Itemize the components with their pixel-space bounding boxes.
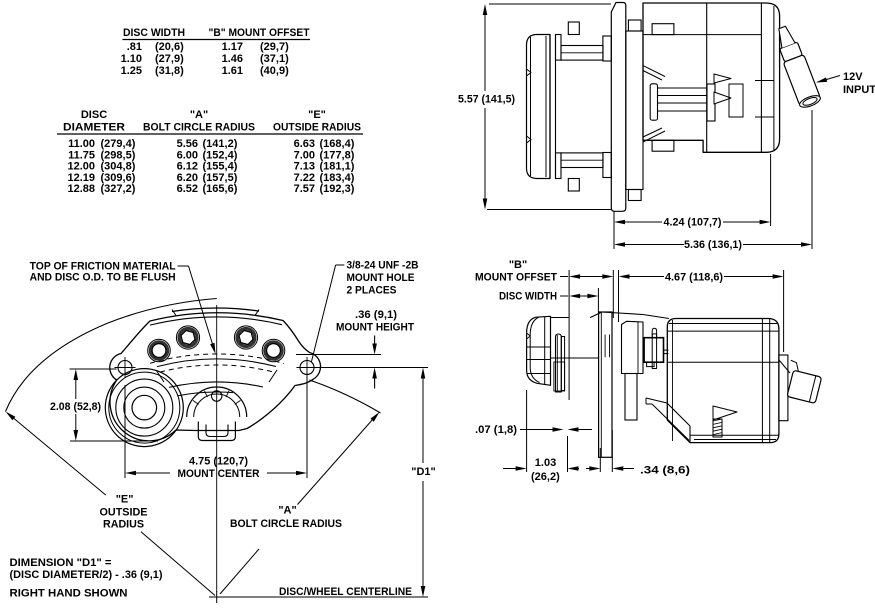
svg-text:(DISC DIAMETER/2) - .36 (9,1): (DISC DIAMETER/2) - .36 (9,1)	[10, 569, 163, 581]
svg-text:12V: 12V	[843, 71, 863, 83]
svg-text:4.67 (118,6): 4.67 (118,6)	[665, 272, 723, 284]
svg-text:(304,8): (304,8)	[101, 161, 136, 173]
svg-text:6.63: 6.63	[294, 138, 315, 150]
svg-text:4.24 (107,7): 4.24 (107,7)	[664, 217, 722, 229]
svg-text:(327,2): (327,2)	[101, 183, 136, 195]
svg-text:1.46: 1.46	[222, 53, 243, 65]
svg-text:"A": "A"	[190, 109, 208, 121]
svg-text:(31,8): (31,8)	[155, 65, 184, 77]
svg-text:BOLT CIRCLE RADIUS: BOLT CIRCLE RADIUS	[230, 518, 342, 530]
svg-text:INPUT: INPUT	[843, 84, 875, 96]
svg-text:BOLT CIRCLE RADIUS: BOLT CIRCLE RADIUS	[143, 122, 255, 134]
svg-text:6.12: 6.12	[177, 161, 198, 173]
svg-text:1.61: 1.61	[222, 65, 243, 77]
svg-text:RADIUS: RADIUS	[103, 519, 144, 531]
svg-text:7.13: 7.13	[294, 161, 315, 173]
svg-text:12.00: 12.00	[67, 161, 95, 173]
svg-text:"B" MOUNT OFFSET: "B" MOUNT OFFSET	[209, 27, 310, 39]
svg-text:(29,7): (29,7)	[260, 41, 289, 53]
svg-text:DISC WIDTH: DISC WIDTH	[499, 291, 557, 303]
svg-text:(37,1): (37,1)	[260, 53, 289, 65]
svg-text:3/8-24 UNF -2B: 3/8-24 UNF -2B	[347, 260, 419, 272]
svg-text:7.00: 7.00	[294, 149, 315, 161]
svg-text:12.19: 12.19	[67, 172, 95, 184]
svg-text:(279,4): (279,4)	[101, 138, 136, 150]
svg-text:(183,4): (183,4)	[320, 172, 355, 184]
svg-text:MOUNT CENTER: MOUNT CENTER	[178, 468, 260, 480]
svg-text:2 PLACES: 2 PLACES	[347, 285, 397, 297]
svg-text:"D1": "D1"	[411, 466, 436, 478]
svg-text:"E": "E"	[116, 494, 134, 506]
svg-text:5.36 (136,1): 5.36 (136,1)	[684, 239, 742, 251]
svg-text:DISC: DISC	[81, 109, 107, 121]
svg-text:.81: .81	[127, 41, 142, 53]
svg-text:AND DISC O.D. TO BE FLUSH: AND DISC O.D. TO BE FLUSH	[30, 272, 176, 284]
svg-text:6.00: 6.00	[177, 149, 198, 161]
svg-text:(181,1): (181,1)	[320, 161, 355, 173]
svg-text:RIGHT HAND SHOWN: RIGHT HAND SHOWN	[10, 588, 128, 600]
svg-text:DIMENSION "D1" =: DIMENSION "D1" =	[10, 557, 112, 569]
svg-text:(177,8): (177,8)	[320, 149, 355, 161]
svg-text:OUTSIDE: OUTSIDE	[100, 507, 148, 519]
svg-text:DIAMETER: DIAMETER	[63, 122, 125, 134]
svg-text:(298,5): (298,5)	[101, 149, 136, 161]
svg-text:OUTSIDE RADIUS: OUTSIDE RADIUS	[273, 122, 361, 134]
svg-text:.07 (1,8): .07 (1,8)	[475, 424, 517, 436]
svg-text:11.00: 11.00	[68, 138, 95, 150]
svg-text:"E": "E"	[308, 109, 326, 121]
svg-text:MOUNT HOLE: MOUNT HOLE	[347, 272, 415, 284]
svg-text:(157,5): (157,5)	[203, 172, 238, 184]
svg-text:MOUNT OFFSET: MOUNT OFFSET	[475, 272, 557, 284]
svg-text:.36 (9,1): .36 (9,1)	[355, 309, 397, 321]
svg-text:12.88: 12.88	[67, 183, 95, 195]
svg-text:(26,2): (26,2)	[531, 471, 560, 483]
svg-text:(152,4): (152,4)	[203, 149, 238, 161]
svg-text:11.75: 11.75	[68, 149, 95, 161]
svg-text:DISC/WHEEL CENTERLINE: DISC/WHEEL CENTERLINE	[279, 586, 412, 598]
svg-text:7.57: 7.57	[294, 183, 315, 195]
svg-text:2.08 (52,8): 2.08 (52,8)	[50, 401, 101, 413]
svg-text:(141,2): (141,2)	[203, 138, 238, 150]
svg-text:1.10: 1.10	[121, 53, 142, 65]
svg-text:"B": "B"	[509, 259, 527, 271]
svg-text:(20,6): (20,6)	[155, 41, 184, 53]
svg-text:DISC WIDTH: DISC WIDTH	[123, 27, 185, 39]
svg-text:1.25: 1.25	[121, 65, 142, 77]
svg-text:(40,9): (40,9)	[260, 65, 289, 77]
svg-text:(309,6): (309,6)	[101, 172, 136, 184]
svg-text:(192,3): (192,3)	[320, 183, 355, 195]
svg-text:.34 (8,6): .34 (8,6)	[640, 465, 690, 477]
svg-text:(168,4): (168,4)	[320, 138, 355, 150]
svg-text:(165,6): (165,6)	[203, 183, 238, 195]
svg-text:7.22: 7.22	[294, 172, 315, 184]
svg-text:(155,4): (155,4)	[203, 161, 238, 173]
svg-text:1.17: 1.17	[222, 41, 243, 53]
svg-text:5.57 (141,5): 5.57 (141,5)	[458, 94, 515, 106]
svg-text:1.03: 1.03	[535, 457, 556, 469]
svg-text:6.52: 6.52	[177, 183, 198, 195]
svg-text:6.20: 6.20	[177, 172, 198, 184]
svg-text:MOUNT HEIGHT: MOUNT HEIGHT	[336, 322, 414, 334]
svg-text:5.56: 5.56	[177, 138, 198, 150]
svg-text:(27,9): (27,9)	[155, 53, 184, 65]
svg-text:4.75 (120,7): 4.75 (120,7)	[189, 456, 248, 468]
svg-text:"A": "A"	[278, 505, 296, 517]
